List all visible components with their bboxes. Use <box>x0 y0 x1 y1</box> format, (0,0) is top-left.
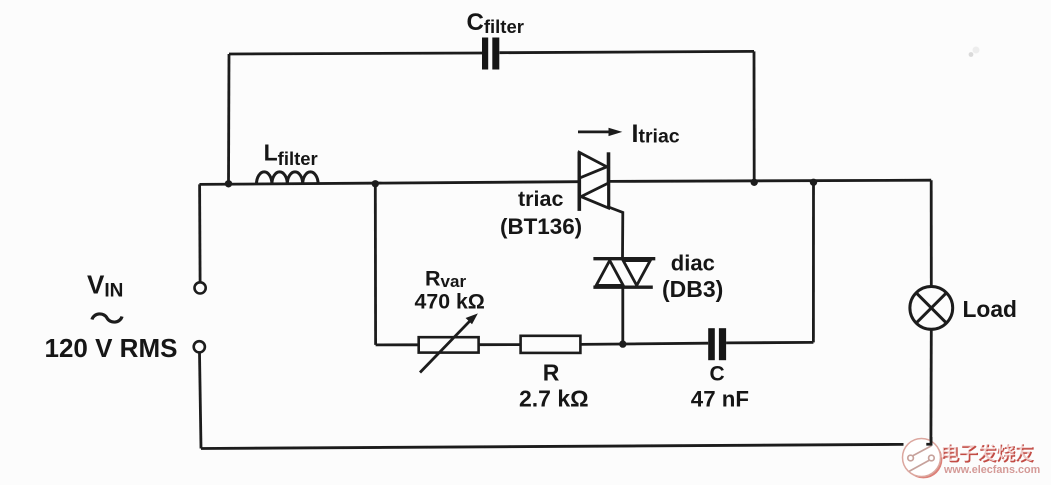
wire diac to junction <box>621 287 624 344</box>
wire corner stub over logo <box>926 437 931 444</box>
resistor Rvar <box>419 337 479 352</box>
svg-text:Rvar: Rvar <box>425 266 466 291</box>
wire right riser from top <box>753 51 756 182</box>
wire load vertical upper <box>930 180 933 286</box>
node junction dot left riser <box>225 180 232 187</box>
triac U1 left bar <box>577 152 581 211</box>
svg-text:Itriac: Itriac <box>632 120 680 148</box>
resistor R <box>521 336 581 353</box>
watermark chinese text <box>941 443 1034 463</box>
node junction dot C branch <box>810 179 817 186</box>
svg-text:Lfilter: Lfilter <box>264 139 318 169</box>
svg-text:470 kΩ: 470 kΩ <box>415 290 485 314</box>
wire source lower lead <box>200 353 202 449</box>
svg-text:47 nF: 47 nF <box>691 386 749 411</box>
node junction dot right riser <box>751 179 758 186</box>
wire triac gate <box>609 207 623 258</box>
lamp Load <box>910 287 953 330</box>
inductor Lfilter <box>257 172 319 184</box>
wire Rvar branch vertical <box>374 184 377 345</box>
svg-text:VIN: VIN <box>87 270 123 302</box>
wire top left segment <box>229 53 483 54</box>
capacitor Cfilter <box>482 38 499 70</box>
wire load vertical lower <box>930 329 933 444</box>
wire source upper lead <box>198 184 201 282</box>
svg-text:diac: diac <box>671 250 715 275</box>
diac D1 top bar <box>593 257 655 260</box>
terminal circle upper <box>195 282 206 293</box>
capacitor C <box>708 328 726 360</box>
wire bottom <box>201 444 904 448</box>
wire branch seg4 <box>726 341 813 344</box>
svg-text:Load: Load <box>963 296 1017 322</box>
wire left riser to top <box>227 54 230 184</box>
svg-text:(DB3): (DB3) <box>662 276 723 302</box>
svg-text:triac: triac <box>518 187 563 211</box>
wire branch seg2 <box>479 343 521 346</box>
wire top right segment <box>500 51 755 52</box>
terminal circle lower <box>194 341 205 352</box>
watermark logo <box>903 439 943 479</box>
triac lower triangle <box>581 183 609 208</box>
diac bottom bar <box>593 286 652 289</box>
wire main horizontal left of triac <box>199 182 578 185</box>
svg-text:R: R <box>543 360 560 386</box>
svg-text:C: C <box>710 363 725 386</box>
svg-text:Cfilter: Cfilter <box>467 9 524 37</box>
svg-text:120 V RMS: 120 V RMS <box>45 333 178 363</box>
svg-text:2.7 kΩ: 2.7 kΩ <box>519 385 589 411</box>
diac right triangle <box>623 261 650 286</box>
node junction dot Rvar branch <box>372 180 379 187</box>
ac sine symbol <box>92 314 122 322</box>
svg-text:www.elecfans.com: www.elecfans.com <box>943 464 1040 476</box>
node junction dot diac bottom <box>619 340 626 347</box>
wire branch seg3 <box>580 343 708 344</box>
wire branch seg1 <box>376 343 419 346</box>
svg-text:(BT136): (BT136) <box>500 214 582 239</box>
scan speck <box>969 52 974 57</box>
wire main horizontal right of triac <box>610 180 931 181</box>
arrow Rvar <box>420 320 471 373</box>
diac left triangle <box>596 260 623 285</box>
triac upper triangle <box>580 153 607 179</box>
wire C branch vertical <box>812 182 815 342</box>
triac right bar <box>607 152 611 208</box>
arrow Itriac <box>578 130 612 133</box>
